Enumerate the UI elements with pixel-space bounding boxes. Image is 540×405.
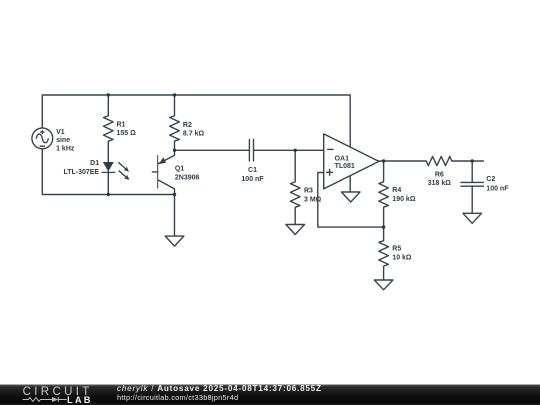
- svg-text:OA1: OA1: [335, 155, 350, 162]
- svg-text:LTL-307EE: LTL-307EE: [63, 169, 99, 176]
- svg-text:Q1: Q1: [175, 166, 184, 173]
- svg-text:R1: R1: [117, 121, 126, 128]
- svg-text:LAB: LAB: [67, 395, 93, 405]
- svg-text:1 kHz: 1 kHz: [56, 146, 75, 153]
- svg-text:D1: D1: [90, 160, 99, 167]
- svg-text:8.7 kΩ: 8.7 kΩ: [183, 131, 205, 138]
- svg-text:100 nF: 100 nF: [241, 176, 264, 183]
- svg-text:R3: R3: [304, 188, 313, 195]
- svg-text:10 kΩ: 10 kΩ: [392, 254, 412, 261]
- svg-text:155 Ω: 155 Ω: [117, 130, 137, 137]
- svg-text:318 kΩ: 318 kΩ: [428, 180, 452, 187]
- svg-text:R5: R5: [392, 245, 401, 252]
- svg-text:cherylk / Autosave 2025-04-08T: cherylk / Autosave 2025-04-08T14:37:06.8…: [117, 384, 322, 393]
- svg-text:V1: V1: [56, 129, 65, 136]
- svg-text:http://circuitlab.com/ct33b8jp: http://circuitlab.com/ct33b8jpn5r4d: [117, 393, 238, 402]
- svg-text:TL081: TL081: [335, 163, 355, 170]
- svg-text:R2: R2: [183, 122, 192, 129]
- svg-text:sine: sine: [56, 137, 70, 144]
- svg-text:190 kΩ: 190 kΩ: [392, 196, 416, 203]
- svg-text:2N3906: 2N3906: [175, 174, 200, 181]
- svg-text:C2: C2: [486, 176, 495, 183]
- svg-text:100 nF: 100 nF: [486, 186, 509, 193]
- svg-text:R4: R4: [392, 187, 401, 194]
- svg-text:R6: R6: [435, 172, 444, 179]
- svg-text:3 MΩ: 3 MΩ: [304, 197, 322, 204]
- svg-text:C1: C1: [248, 167, 257, 174]
